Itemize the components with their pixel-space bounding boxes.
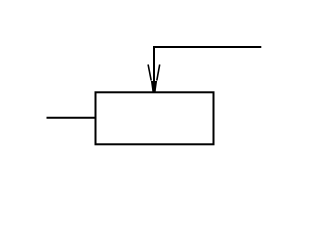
wire: control line (top horizontal run and vertical drop) — [154, 47, 261, 86]
arrowhead (points down onto box top edge) — [148, 65, 160, 94]
resistor (box symbol) — [96, 92, 214, 144]
wire: left lead into box — [47, 117, 96, 119]
